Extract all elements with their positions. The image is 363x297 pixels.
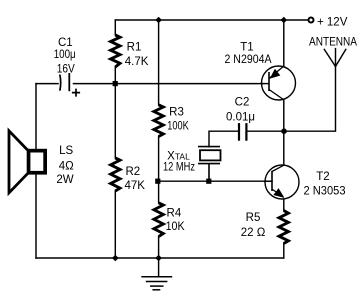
svg-text:100μ: 100μ — [54, 49, 76, 61]
svg-text:T1: T1 — [240, 42, 253, 54]
svg-text:+ 12V: + 12V — [317, 16, 348, 28]
svg-text:16V: 16V — [57, 63, 75, 75]
svg-text:T2: T2 — [316, 171, 329, 183]
svg-text:47K: 47K — [124, 180, 145, 192]
svg-text:XTAL: XTAL — [167, 150, 190, 162]
svg-text:R3: R3 — [169, 107, 184, 119]
svg-text:10K: 10K — [166, 221, 185, 233]
svg-text:2 N3053: 2 N3053 — [304, 186, 346, 198]
svg-text:4Ω: 4Ω — [59, 161, 74, 173]
svg-text:12 MHz: 12 MHz — [163, 162, 195, 174]
svg-text:R4: R4 — [167, 208, 182, 220]
svg-text:LS: LS — [59, 145, 73, 157]
svg-text:100K: 100K — [167, 120, 189, 132]
svg-text:2 N2904A: 2 N2904A — [225, 54, 272, 66]
svg-text:4.7K: 4.7K — [125, 56, 149, 68]
svg-text:0.01μ: 0.01μ — [226, 111, 255, 123]
svg-text:R5: R5 — [246, 212, 261, 224]
svg-text:R2: R2 — [125, 166, 140, 178]
svg-text:22 Ω: 22 Ω — [241, 227, 266, 239]
svg-text:C1: C1 — [58, 37, 73, 49]
svg-text:C2: C2 — [235, 97, 250, 109]
svg-text:2W: 2W — [56, 174, 73, 186]
svg-text:R1: R1 — [127, 42, 142, 54]
svg-text:ANTENNA: ANTENNA — [309, 37, 357, 49]
